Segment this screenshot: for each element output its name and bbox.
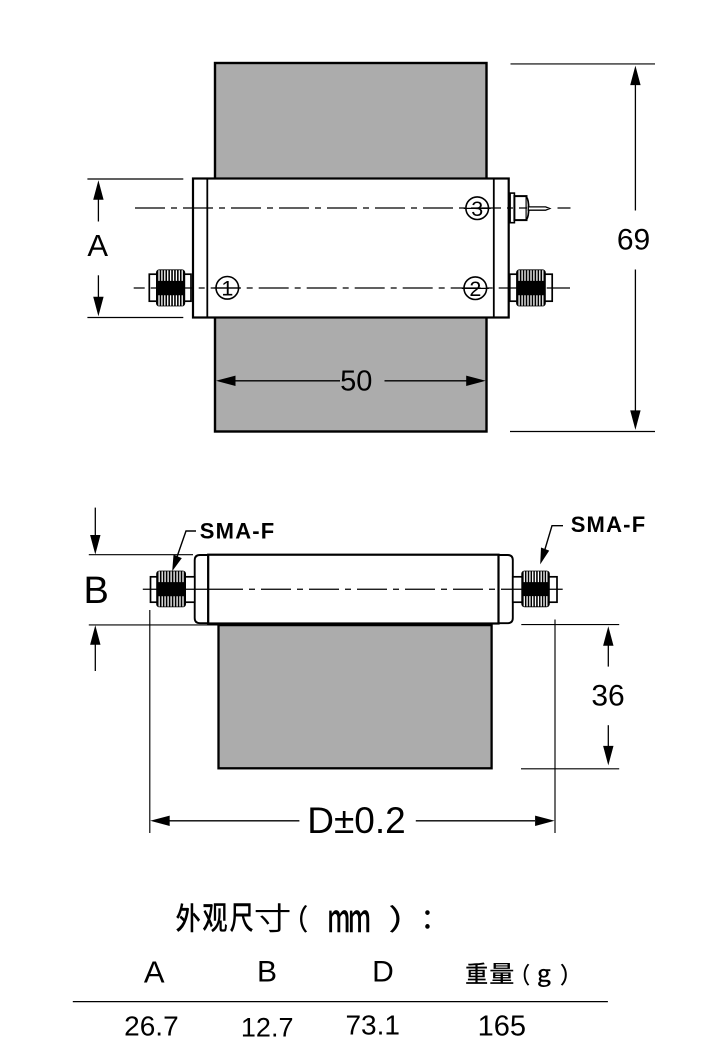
side view centerline (dash-dot)	[143, 588, 563, 590]
svg-text:36: 36	[591, 680, 624, 713]
svg-text:26.7: 26.7	[124, 1010, 179, 1041]
dimension A arrows and line	[93, 180, 103, 316]
port label circle 1	[214, 277, 241, 301]
side view right SMA knurled nut	[521, 571, 550, 608]
port 3 connector flange	[510, 193, 514, 223]
port 3 connector body	[514, 196, 526, 220]
svg-text:2: 2	[469, 277, 481, 301]
dimension A extension line bottom	[87, 317, 183, 319]
svg-text:69: 69	[617, 224, 650, 257]
SMA port 1 knurled nut	[156, 269, 185, 306]
body left end-cap line	[206, 179, 208, 318]
svg-text:A: A	[87, 228, 108, 263]
dimension 69 extension line bottom	[510, 431, 655, 433]
dimension 36 extension line bottom	[521, 768, 619, 770]
mounting plate upper (top view, gray)	[215, 63, 487, 180]
SMA connector port 1 envelope (left)	[149, 274, 191, 301]
attenuator body (top view)	[193, 179, 509, 318]
svg-text:12.7: 12.7	[241, 1013, 294, 1043]
mounting plate (side view, gray)	[219, 625, 492, 768]
svg-text:73.1: 73.1	[345, 1009, 400, 1040]
svg-text:1: 1	[221, 277, 233, 301]
SMA-F leader right	[540, 526, 563, 565]
svg-text:D±0.2: D±0.2	[307, 800, 405, 841]
dimension 36 arrows	[603, 626, 613, 765]
svg-text:B: B	[257, 956, 277, 989]
dimension D arrows and line	[150, 816, 554, 826]
dimension B arrows	[90, 508, 100, 671]
port 3 center pin	[528, 207, 550, 210]
dimension 69 arrows and line	[630, 66, 640, 430]
side view left SMA knurled nut	[156, 571, 186, 608]
svg-text:50: 50	[340, 366, 372, 398]
svg-text:3: 3	[471, 197, 483, 221]
svg-text:B: B	[84, 570, 109, 612]
dimension A extension line top	[87, 178, 183, 180]
side view right SMA envelope	[513, 577, 557, 602]
svg-text:SMA-F: SMA-F	[571, 512, 647, 537]
port label circle 3	[464, 197, 491, 221]
table rule	[73, 1001, 608, 1003]
table header 重量（g）	[466, 962, 567, 987]
dimension 69 extension line top	[511, 63, 656, 65]
dimension 50 arrows and line	[216, 376, 486, 386]
table title 外观尺寸（mm）：	[176, 903, 429, 932]
centerline ports 1-2 (lower, dash-dot)	[134, 287, 570, 289]
svg-text:D: D	[372, 956, 394, 989]
port label circle 2	[462, 277, 489, 301]
dimension D extension line left	[149, 610, 151, 833]
SMA port 2 knurled nut	[516, 269, 546, 306]
dimension 36 extension line top	[521, 624, 619, 626]
port 3 dome	[527, 197, 529, 219]
dimension B extension line top	[89, 554, 193, 556]
SMA connector port 2 envelope (right)	[510, 274, 552, 301]
centerline port 3 (upper, dash-dot)	[135, 207, 571, 209]
side view body left rounded cap	[195, 555, 209, 623]
side view body right rounded cap	[499, 555, 513, 623]
svg-text:A: A	[144, 954, 165, 989]
side view left SMA envelope	[151, 577, 195, 602]
dimension B extension line bottom	[89, 624, 218, 626]
SMA-F leader left	[172, 531, 196, 571]
dimension D extension line right	[554, 620, 556, 834]
body right end-cap line	[493, 179, 495, 318]
side view attenuator body	[208, 555, 498, 624]
mounting plate lower (top view, gray)	[215, 316, 487, 432]
svg-text:SMA-F: SMA-F	[200, 519, 276, 544]
svg-text:165: 165	[478, 1011, 526, 1043]
